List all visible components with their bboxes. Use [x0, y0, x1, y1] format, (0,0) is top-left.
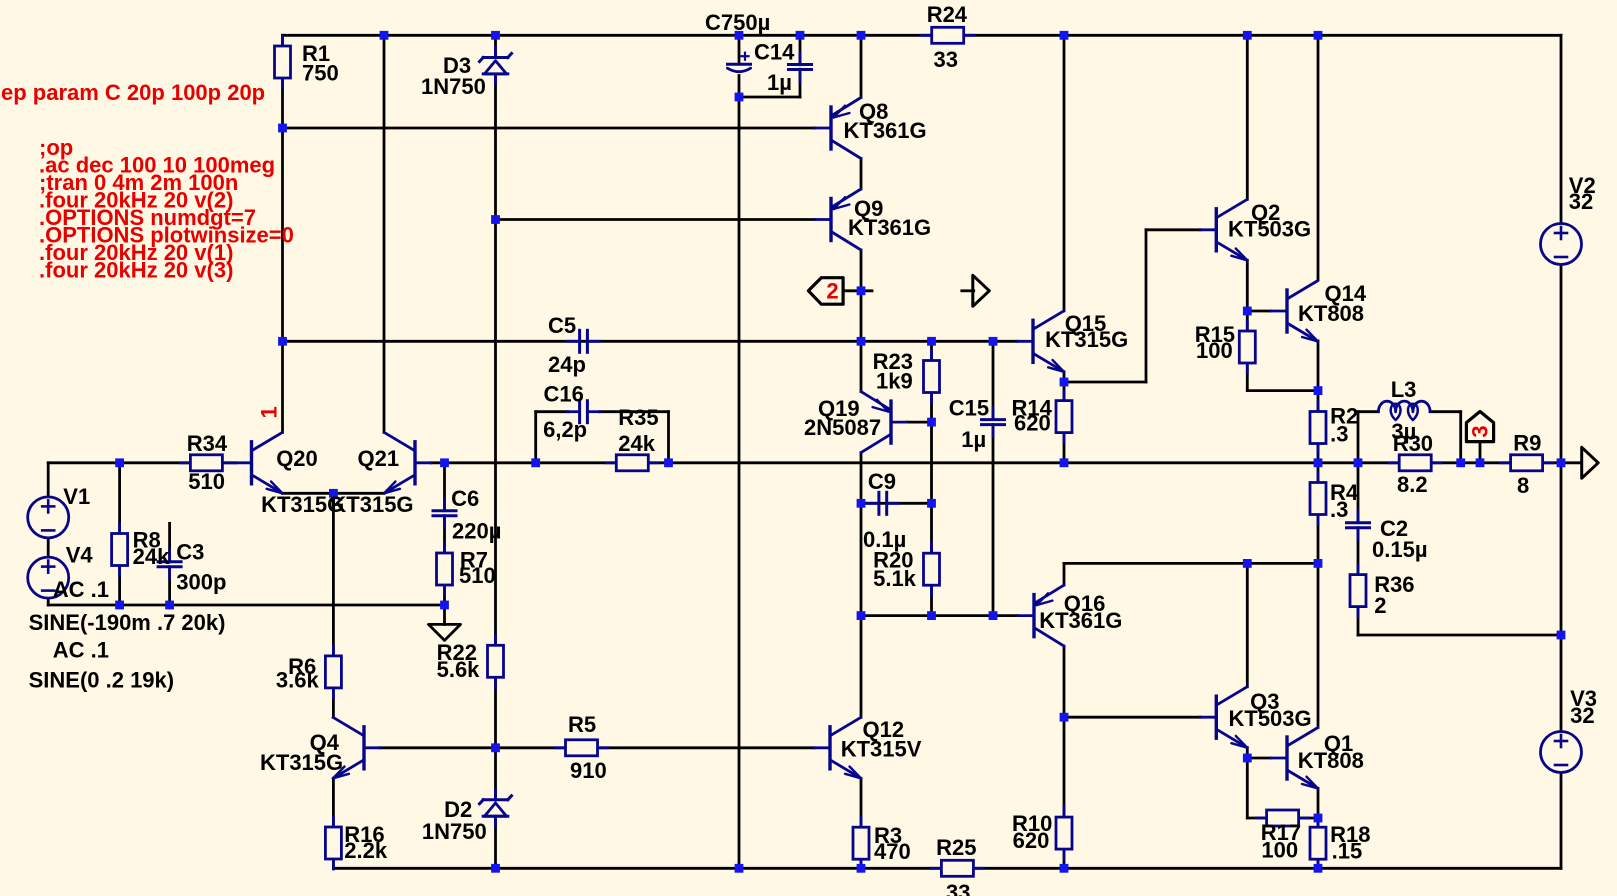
svg-text:1µ: 1µ [767, 70, 792, 95]
svg-text:R34: R34 [187, 431, 228, 456]
svg-text:24k: 24k [618, 431, 655, 456]
svg-text:ep param C 20p 100p 20p: ep param C 20p 100p 20p [1, 80, 265, 105]
svg-text:620: 620 [1013, 828, 1050, 853]
svg-text:KT361G: KT361G [844, 118, 927, 143]
svg-text:R30: R30 [1393, 431, 1433, 456]
svg-text:0.15µ: 0.15µ [1372, 537, 1428, 562]
svg-text:470: 470 [874, 839, 911, 864]
svg-text:C3: C3 [176, 540, 204, 565]
svg-text:24p: 24p [548, 352, 586, 377]
svg-text:V1: V1 [63, 484, 90, 509]
svg-text:KT808: KT808 [1298, 748, 1364, 773]
svg-text:R35: R35 [618, 405, 658, 430]
svg-text:KT361G: KT361G [848, 215, 931, 240]
svg-text:100: 100 [1261, 838, 1298, 863]
svg-text:2.2k: 2.2k [344, 838, 388, 863]
svg-text:5.6k: 5.6k [437, 657, 481, 682]
svg-text:1µ: 1µ [961, 427, 986, 452]
svg-text:510: 510 [188, 469, 225, 494]
svg-text:Q20: Q20 [276, 446, 318, 471]
svg-text:R25: R25 [936, 835, 976, 860]
svg-text:KT315G: KT315G [260, 750, 343, 775]
svg-text:33: 33 [934, 47, 958, 72]
svg-text:SINE(0 .2 19k): SINE(0 .2 19k) [29, 668, 175, 693]
svg-text:C14: C14 [754, 40, 795, 65]
svg-text:C750µ: C750µ [705, 10, 770, 35]
svg-text:KT315G: KT315G [1045, 327, 1128, 352]
svg-text:1: 1 [257, 406, 282, 418]
svg-text:3.6k: 3.6k [276, 668, 320, 693]
svg-text:R5: R5 [568, 712, 596, 737]
svg-text:220µ: 220µ [452, 519, 501, 544]
svg-text:C15: C15 [949, 396, 989, 421]
svg-text:V4: V4 [66, 543, 94, 568]
svg-text:.four 20kHz 20 v(3): .four 20kHz 20 v(3) [39, 258, 233, 283]
svg-text:R9: R9 [1513, 431, 1541, 456]
svg-text:.3: .3 [1330, 422, 1348, 447]
svg-text:2N5087: 2N5087 [804, 415, 881, 440]
svg-text:6,2p: 6,2p [543, 417, 587, 442]
svg-text:300p: 300p [176, 570, 226, 595]
svg-text:1N750: 1N750 [421, 74, 486, 99]
svg-text:.15: .15 [1332, 839, 1363, 864]
svg-text:5.1k: 5.1k [873, 566, 917, 591]
svg-text:KT315V: KT315V [841, 737, 922, 762]
svg-text:C5: C5 [548, 313, 576, 338]
svg-text:8.2: 8.2 [1397, 472, 1428, 497]
svg-text:2: 2 [1374, 593, 1386, 618]
svg-text:620: 620 [1014, 411, 1051, 436]
svg-text:24k: 24k [133, 544, 170, 569]
svg-text:.3: .3 [1330, 497, 1348, 522]
svg-text:Q21: Q21 [358, 446, 400, 471]
svg-text:KT503G: KT503G [1229, 706, 1312, 731]
svg-text:2: 2 [826, 279, 838, 304]
svg-text:R24: R24 [927, 2, 968, 27]
svg-text:KT808: KT808 [1298, 301, 1364, 326]
svg-text:AC .1: AC .1 [53, 577, 109, 602]
svg-text:100: 100 [1196, 338, 1233, 363]
svg-text:750: 750 [302, 61, 339, 86]
svg-text:0.1µ: 0.1µ [863, 527, 906, 552]
svg-text:KT503G: KT503G [1228, 217, 1311, 242]
svg-text:KT315G: KT315G [330, 492, 413, 517]
svg-text:32: 32 [1570, 703, 1594, 728]
svg-text:L3: L3 [1391, 377, 1417, 402]
svg-text:AC .1: AC .1 [53, 638, 109, 663]
svg-text:33: 33 [946, 880, 970, 896]
svg-text:8: 8 [1517, 473, 1529, 498]
svg-text:SINE(-190m .7 20k): SINE(-190m .7 20k) [29, 610, 226, 635]
svg-text:C16: C16 [544, 382, 584, 407]
svg-text:C9: C9 [868, 469, 896, 494]
svg-text:KT361G: KT361G [1039, 608, 1122, 633]
svg-text:510: 510 [459, 563, 496, 588]
svg-text:910: 910 [570, 758, 607, 783]
svg-text:1k9: 1k9 [876, 369, 913, 394]
svg-text:32: 32 [1569, 189, 1593, 214]
svg-text:3: 3 [1468, 425, 1493, 437]
svg-text:C6: C6 [451, 486, 479, 511]
svg-text:1N750: 1N750 [422, 819, 487, 844]
